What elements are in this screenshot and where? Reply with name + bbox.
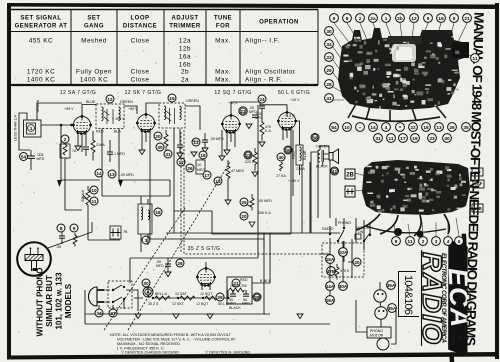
- svg-text:11: 11: [408, 239, 413, 244]
- callout row top: [330, 14, 472, 23]
- leader lines photo2 bottom: [394, 218, 459, 236]
- svg-text:10A: 10A: [339, 250, 348, 255]
- svg-text:500 K.A: 500 K.A: [258, 211, 271, 215]
- callout 13 with cap: [192, 133, 224, 153]
- dashed diag line 2: [128, 162, 230, 330]
- callout 33: [109, 309, 117, 317]
- rule under RADIO: [421, 250, 423, 346]
- horizontal line y312 power: [85, 313, 270, 315]
- callout 15A: [326, 255, 335, 264]
- phono motor box: [356, 300, 396, 350]
- svg-text:50 L 6 GT/G: 50 L 6 GT/G: [278, 90, 310, 96]
- callout 30: [156, 143, 164, 151]
- tube V5 35Z5 rectifier: [196, 267, 216, 287]
- svg-text:500 KA: 500 KA: [81, 190, 85, 202]
- svg-text:31: 31: [165, 152, 171, 157]
- svg-text:26: 26: [177, 261, 183, 266]
- junction dots grid wire: [60, 124, 63, 127]
- callout 14A: [326, 282, 335, 291]
- callout 16A: [326, 296, 335, 305]
- phono wiring: [330, 238, 352, 296]
- svg-text:+90 V: +90 V: [128, 107, 138, 111]
- svg-text:.1 MFD: .1 MFD: [113, 152, 125, 156]
- svg-text:14B: 14B: [473, 206, 482, 211]
- svg-text:RED: RED: [292, 151, 296, 159]
- svg-text:+99 V: +99 V: [64, 107, 74, 111]
- svg-text:6: 6: [453, 16, 456, 21]
- radio/phono switch: [322, 221, 351, 242]
- svg-text:2a: 2a: [370, 16, 376, 21]
- detector diode wires under IF2: [174, 128, 183, 170]
- wire T2 to V3 grid area: [185, 106, 200, 130]
- callout 11: [177, 158, 185, 166]
- svg-text:2b: 2b: [181, 69, 189, 76]
- svg-text:Align - R.F.: Align - R.F.: [245, 77, 282, 84]
- svg-text:Close: Close: [131, 38, 150, 45]
- callout 11b volume: [90, 197, 98, 205]
- svg-text:12: 12: [411, 16, 417, 21]
- wire plug to switch: [104, 290, 110, 302]
- wire long vertical from T1b: [118, 129, 120, 181]
- svg-text:41: 41: [332, 169, 338, 174]
- svg-text:14: 14: [96, 171, 102, 176]
- resistor 47MEG vertical: [225, 160, 244, 205]
- phono switch dashed enclosure: [322, 243, 364, 277]
- OT secondary coil: [318, 150, 324, 162]
- svg-text:BLUE: BLUE: [86, 100, 96, 104]
- svg-text:20: 20: [354, 260, 360, 265]
- svg-text:5: 5: [458, 239, 461, 244]
- bus into power area: [130, 234, 258, 283]
- svg-text:Align Oscillator: Align Oscillator: [245, 69, 296, 76]
- leader lines photo1: [333, 23, 471, 100]
- wire V1 plate up: [82, 105, 96, 117]
- svg-text:13: 13: [109, 172, 115, 177]
- svg-text:+ 100 V: + 100 V: [112, 117, 125, 121]
- svg-text:▽ DENOTES CHASSIS GROUND: ▽ DENOTES CHASSIS GROUND: [121, 351, 179, 355]
- svg-text:15A: 15A: [326, 257, 335, 262]
- svg-text:23: 23: [429, 136, 435, 141]
- end bar top of 104&106: [398, 271, 416, 273]
- svg-text:25: 25: [241, 200, 247, 205]
- svg-text:17: 17: [204, 173, 210, 178]
- MODELS rotated text: [36, 268, 74, 337]
- svg-text:MAXIMUM - NO SIGNAL RECEIVED: MAXIMUM - NO SIGNAL RECEIVED.: [117, 342, 181, 346]
- wire V3 plate up: [231, 102, 260, 115]
- svg-text:MEG: MEG: [197, 168, 205, 172]
- svg-text:Max.: Max.: [215, 77, 231, 84]
- svg-text:11: 11: [389, 136, 394, 141]
- single callout left row2: [0, 0, 1, 1]
- svg-text:20: 20: [155, 134, 161, 139]
- svg-text:1400 KC: 1400 KC: [27, 77, 55, 84]
- svg-text:24: 24: [259, 97, 265, 102]
- svg-text:MFD: MFD: [156, 264, 164, 268]
- svg-text:31: 31: [375, 136, 381, 141]
- svg-text:8: 8: [60, 226, 63, 231]
- dashed diag line 1: [104, 208, 185, 330]
- heater junction dots: [152, 297, 154, 299]
- svg-text:.05 MFD: .05 MFD: [258, 199, 272, 203]
- resistor R20 under IF2: [154, 130, 168, 153]
- svg-text:GANG: GANG: [84, 24, 104, 30]
- rule under 104&106: [398, 271, 400, 317]
- svg-text:MFD: MFD: [242, 302, 250, 306]
- wire T1 to V2 grid: [124, 106, 137, 114]
- svg-text:OPERATION: OPERATION: [259, 20, 299, 26]
- vertical wires V5 to bus: [202, 285, 210, 290]
- svg-text:.05: .05: [56, 245, 61, 249]
- IF transformer T2 (dashed box): [159, 99, 199, 128]
- svg-text:16b: 16b: [179, 62, 191, 69]
- svg-text:VOLTMETER - LINE VOLTAGE 11: VOLTMETER - LINE VOLTAGE 117 V. A. C. - …: [117, 337, 236, 341]
- switch wires up to photo: [344, 218, 370, 250]
- svg-text:470 K: 470 K: [340, 269, 350, 273]
- svg-text:19: 19: [412, 136, 418, 141]
- svg-text:NOTE: ALL VOLTAGES MEASURED: NOTE: ALL VOLTAGES MEASURED FROM B- WITH…: [110, 333, 232, 337]
- svg-text:40: 40: [278, 155, 284, 160]
- svg-text:RED: RED: [240, 278, 248, 282]
- wire filter to B+: [252, 233, 270, 283]
- svg-text:14: 14: [370, 125, 376, 130]
- svg-text:30: 30: [143, 281, 149, 286]
- svg-text:18: 18: [423, 125, 429, 130]
- svg-text:3: 3: [435, 239, 438, 244]
- bus wire y239: [150, 239, 264, 247]
- heater resistor 1: [155, 296, 170, 300]
- down arrows under V1 region: [57, 180, 123, 187]
- svg-text:41: 41: [326, 96, 332, 101]
- svg-text:11: 11: [473, 56, 478, 61]
- svg-text:Max.: Max.: [215, 69, 231, 76]
- bus wire mid: [174, 211, 258, 234]
- svg-text:--: --: [358, 125, 362, 130]
- callout 30A: [339, 282, 348, 291]
- svg-text:16a: 16a: [179, 54, 191, 61]
- svg-text:35: 35: [463, 125, 469, 130]
- ground triangles power row: [135, 314, 141, 319]
- svg-text:27 KA: 27 KA: [276, 174, 286, 178]
- wire V4 plate to OT: [293, 121, 329, 233]
- svg-text:+10 V: +10 V: [290, 98, 300, 102]
- svg-text:GREEN: GREEN: [120, 100, 133, 104]
- callout 28: [253, 293, 261, 301]
- leader lines to photo2: [355, 173, 366, 191]
- left vertical bus: [85, 222, 120, 324]
- svg-text:2: 2: [359, 16, 362, 21]
- resistor R40 27KA: [276, 153, 286, 178]
- capacitor C22 .05MFD: [239, 106, 258, 117]
- svg-text:PHONO: PHONO: [338, 221, 351, 225]
- svg-text:12 SQ 7 GT/G: 12 SQ 7 GT/G: [214, 90, 251, 96]
- svg-text:47 MEG: 47 MEG: [231, 169, 244, 173]
- svg-text:29: 29: [326, 68, 332, 73]
- second row callouts: [374, 134, 452, 143]
- svg-text:12 SA 7 GT/G: 12 SA 7 GT/G: [60, 90, 97, 96]
- bus wire top loop: [102, 180, 170, 196]
- ground at V3: [246, 124, 252, 129]
- boxed labels right side: [472, 168, 484, 212]
- svg-text:GREEN: GREEN: [186, 99, 199, 103]
- callout 18: [199, 151, 207, 159]
- svg-text:BELL &: BELL &: [155, 292, 168, 296]
- svg-text:Max.: Max.: [215, 38, 231, 45]
- vertical feed x258: [257, 105, 259, 233]
- wires under V2: [139, 131, 150, 162]
- pilot lamp: [142, 279, 153, 297]
- svg-text:26: 26: [449, 125, 455, 130]
- svg-text:RADIO: RADIO: [322, 227, 334, 231]
- bottom B- bus: [85, 323, 330, 325]
- heater string bus: [134, 287, 230, 298]
- svg-text:22: 22: [240, 109, 246, 114]
- svg-text:SET: SET: [87, 16, 100, 22]
- output transformer T3 primary: [292, 145, 308, 171]
- wire V2 plate up: [146, 103, 159, 114]
- svg-text:28: 28: [254, 295, 260, 300]
- svg-text:34: 34: [326, 42, 332, 47]
- lamp 35W no.1: [374, 281, 396, 303]
- svg-text:Close: Close: [131, 77, 150, 84]
- svg-text:12 SAT: 12 SAT: [175, 292, 188, 296]
- svg-text:.05 MFD: .05 MFD: [120, 173, 134, 177]
- callout 10A: [339, 248, 348, 257]
- border frame right: [495, 3, 499, 359]
- svg-text:AV.C: AV.C: [192, 139, 200, 143]
- svg-text:12 SQT: 12 SQT: [200, 292, 213, 296]
- svg-text:1: 1: [30, 126, 33, 131]
- wires under V3: [222, 130, 235, 156]
- svg-text:36: 36: [312, 135, 318, 140]
- svg-text:11: 11: [92, 199, 97, 204]
- resistor 470K left of V4: [259, 118, 272, 147]
- svg-text:1000A 2W.: 1000A 2W.: [230, 284, 247, 288]
- svg-text:2B: 2B: [346, 173, 354, 179]
- svg-text:TRIMMER: TRIMMER: [169, 24, 201, 30]
- svg-text:8: 8: [395, 239, 398, 244]
- svg-text:455 KC: 455 KC: [29, 38, 53, 45]
- wires lamps: [380, 282, 381, 327]
- svg-text:AV: AV: [474, 170, 481, 175]
- svg-text:RED: RED: [96, 130, 104, 134]
- cap C5 .1MFD: [107, 117, 125, 162]
- callout 20b: [353, 258, 361, 266]
- svg-text:BLACK: BLACK: [229, 306, 241, 310]
- svg-text:Close: Close: [131, 69, 150, 76]
- wire volume to ground: [87, 211, 89, 222]
- svg-text:30: 30: [326, 29, 332, 34]
- svg-text:BLUE: BLUE: [303, 150, 307, 160]
- svg-text:17: 17: [400, 136, 406, 141]
- svg-text:ADJUST: ADJUST: [171, 16, 198, 22]
- svg-text:35 Z 5 GT/G: 35 Z 5 GT/G: [188, 246, 221, 252]
- wire loop to tube1 grid: [37, 103, 82, 125]
- table column rules: [70, 10, 72, 86]
- svg-text:40: 40: [444, 136, 450, 141]
- svg-text:+4.8 V: +4.8 V: [284, 114, 295, 118]
- svg-text:2a: 2a: [181, 77, 189, 84]
- svg-text:GREEN: GREEN: [316, 145, 329, 149]
- wire antenna left down: [19, 113, 30, 150]
- svg-text:3: 3: [145, 238, 148, 243]
- svg-text:PHONO: PHONO: [370, 329, 383, 333]
- line from V5 top bus: [130, 257, 258, 259]
- svg-text:16: 16: [169, 96, 175, 101]
- svg-text:.05 MFD: .05 MFD: [210, 137, 224, 141]
- callout 12: [106, 95, 114, 103]
- svg-text:35A: 35A: [388, 306, 397, 311]
- svg-text:12: 12: [107, 97, 113, 102]
- svg-text:26: 26: [187, 166, 193, 171]
- svg-text:16: 16: [438, 16, 444, 21]
- volume control R11: [81, 186, 98, 211]
- svg-text:Fully Open: Fully Open: [76, 69, 112, 76]
- end bar bottom of 104&106: [398, 316, 419, 318]
- IF transformer T1 (dashed box): [86, 100, 133, 134]
- svg-text:5: 5: [427, 16, 430, 21]
- callout 36: [311, 134, 319, 142]
- callout 29: [216, 293, 224, 301]
- wire bus into phono area: [320, 226, 330, 254]
- svg-text:30A: 30A: [339, 284, 348, 289]
- resistor 470K phono: [327, 264, 350, 280]
- svg-text:35A: 35A: [387, 283, 396, 288]
- svg-text:LESS THAN 1 A: LESS THAN 1 A: [14, 114, 18, 141]
- svg-text:Align-- I.F.: Align-- I.F.: [245, 38, 280, 45]
- svg-text:54: 54: [331, 125, 337, 130]
- oscillator coil L2: [138, 196, 162, 252]
- svg-text:2: 2: [422, 239, 425, 244]
- capacitor C54 .005MFD: [20, 150, 45, 170]
- switch SW1 dashed box: [108, 281, 132, 308]
- bus wire B+ vertical right: [258, 196, 291, 234]
- filter box: [227, 277, 252, 310]
- photo 2 halftone speckle: [368, 166, 462, 212]
- svg-text:MOTOR: MOTOR: [370, 334, 384, 338]
- callout column left of photo1: [325, 27, 334, 103]
- svg-text:BLA.: BLA.: [114, 130, 122, 134]
- svg-text:22: 22: [410, 125, 416, 130]
- svg-text:30: 30: [157, 145, 163, 150]
- svg-text:28: 28: [326, 82, 332, 87]
- svg-text:7A: 7A: [72, 149, 77, 153]
- svg-text:101, 102 w. 133: 101, 102 w. 133: [55, 272, 64, 330]
- svg-text:SET SIGNAL: SET SIGNAL: [20, 16, 61, 22]
- tube V2 12SK7: [136, 113, 156, 133]
- label box 2B: [345, 169, 355, 179]
- callout 23 resistor 220K: [244, 148, 258, 177]
- svg-text:12 BQT: 12 BQT: [196, 302, 209, 306]
- svg-text:21: 21: [464, 16, 470, 21]
- svg-text:220 K: 220 K: [245, 160, 255, 164]
- photo2 bottom callout row: [392, 237, 464, 246]
- svg-text:12a: 12a: [179, 38, 191, 45]
- bus wire y233: [166, 232, 340, 234]
- svg-text:TUNE: TUNE: [214, 16, 232, 22]
- svg-text:1: 1: [385, 16, 388, 21]
- label box trimmer symbol: [345, 186, 355, 197]
- trimmer 7B box: [110, 226, 128, 239]
- svg-text:16A: 16A: [326, 298, 335, 303]
- callout 25 tone pot: [240, 194, 254, 210]
- svg-text:54: 54: [21, 154, 27, 159]
- svg-text:13: 13: [436, 125, 442, 130]
- svg-text:18: 18: [155, 210, 161, 215]
- svg-text:50 L 6: 50 L 6: [218, 302, 228, 306]
- wire screen bus down left: [61, 125, 100, 180]
- capacitors under V1: [75, 133, 89, 156]
- ground under detector: [191, 152, 197, 157]
- heater resistor 3: [205, 296, 220, 300]
- wire pickup to schematic (pointer line): [48, 222, 92, 248]
- svg-text:12b: 12b: [179, 46, 191, 53]
- heater resistor 2: [180, 296, 195, 300]
- svg-text:8: 8: [346, 16, 349, 21]
- svg-text:DISTANCE: DISTANCE: [123, 24, 157, 30]
- vertical drops right section: [150, 150, 330, 314]
- svg-text:WITHOUT PHONO: WITHOUT PHONO: [36, 268, 45, 337]
- border frame bottom: [7, 352, 499, 360]
- svg-text:▽ DENOTES B- GROUND: ▽ DENOTES B- GROUND: [205, 351, 250, 355]
- callout 17: [203, 171, 211, 179]
- svg-text:4: 4: [447, 239, 450, 244]
- svg-text:1720 KC: 1720 KC: [27, 69, 55, 76]
- AC plug P1: [89, 287, 105, 306]
- tube V1 12SA7: [72, 115, 92, 135]
- callout right of photo1: [471, 54, 480, 63]
- dashed gang line vertical: [181, 130, 330, 254]
- svg-text:7B: 7B: [123, 230, 128, 234]
- border frame left: [7, 3, 11, 359]
- svg-text:35 Z 5: 35 Z 5: [148, 302, 158, 306]
- resistor network left: [56, 224, 78, 249]
- svg-text:2b: 2b: [397, 16, 403, 21]
- svg-text:MODELS: MODELS: [64, 283, 73, 318]
- callout 24 cap: [255, 95, 266, 120]
- wires from photo2 to switches: [336, 218, 364, 278]
- border frame top: [7, 3, 499, 9]
- svg-text:10: 10: [91, 188, 97, 193]
- wire grid bias: [65, 158, 82, 210]
- svg-text:9: 9: [333, 16, 336, 21]
- svg-text:+100 V: +100 V: [288, 179, 300, 183]
- svg-text:MFD: MFD: [37, 157, 45, 161]
- svg-text:10: 10: [344, 125, 350, 130]
- svg-text:9: 9: [73, 226, 76, 231]
- wire top bus to V4: [260, 102, 287, 112]
- callout 16: [168, 94, 176, 102]
- callout 26 with resistor: [186, 160, 205, 174]
- tube V3 12SQ7: [221, 114, 241, 134]
- svg-text:47B: 47B: [327, 269, 336, 274]
- callout 13/14 row: [95, 169, 134, 178]
- ECA logo black band: [441, 233, 477, 362]
- svg-text:19: 19: [215, 179, 221, 184]
- svg-text:29: 29: [217, 295, 223, 300]
- callout 35: [284, 146, 292, 154]
- svg-text:10: 10: [197, 163, 201, 167]
- svg-text:MFD: MFD: [228, 302, 236, 306]
- wires below V4: [283, 129, 291, 196]
- svg-text:23: 23: [245, 153, 251, 158]
- svg-text:Meshed: Meshed: [81, 38, 107, 45]
- svg-text:12 SKT: 12 SKT: [172, 302, 185, 306]
- loop antenna L1: [14, 99, 42, 141]
- svg-text:=: =: [399, 125, 402, 130]
- motor on/off switch: [355, 226, 371, 242]
- svg-text:21KA: 21KA: [96, 143, 105, 147]
- cap C26 .05MFD + callout: [156, 258, 184, 277]
